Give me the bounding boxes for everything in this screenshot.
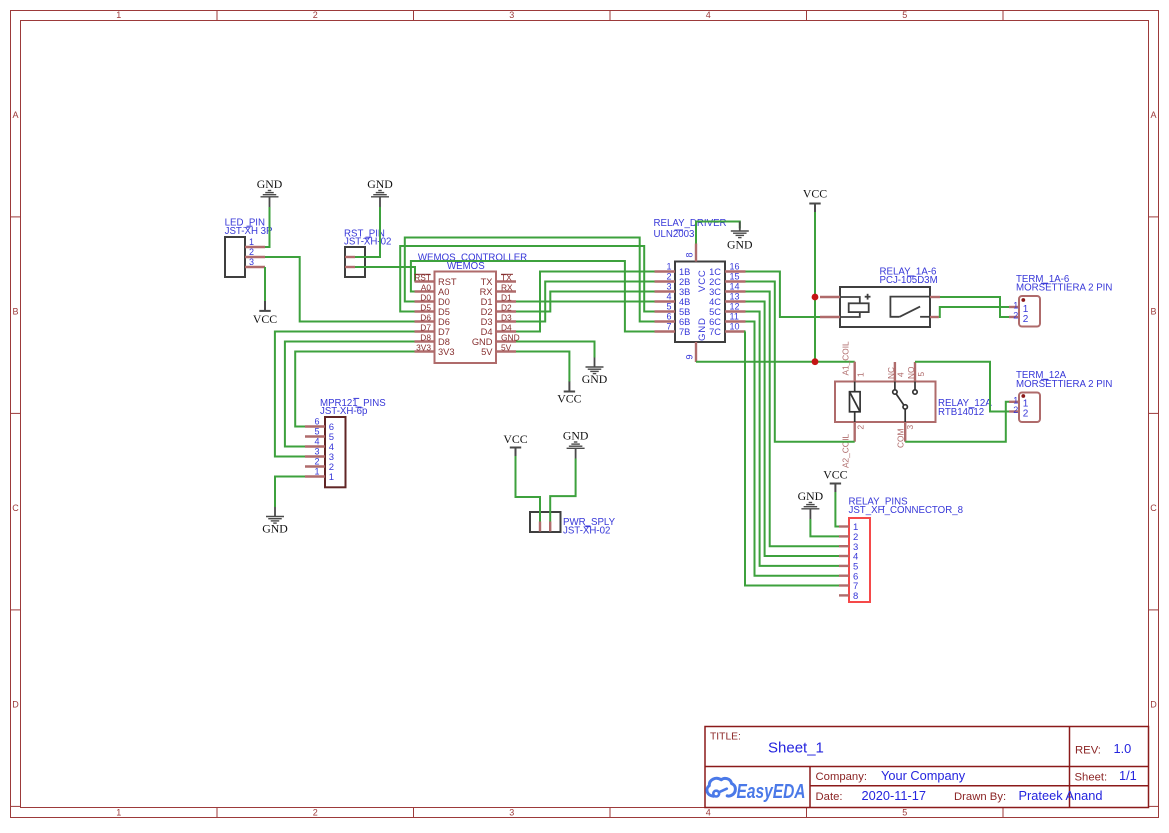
svg-text:A0: A0 xyxy=(438,287,449,297)
svg-text:VCC: VCC xyxy=(253,312,277,326)
svg-text:7C: 7C xyxy=(709,327,721,337)
svg-text:3V3: 3V3 xyxy=(416,342,431,352)
svg-text:3C: 3C xyxy=(709,287,721,297)
svg-text:VCC: VCC xyxy=(803,187,827,201)
svg-text:D1: D1 xyxy=(481,297,493,307)
svg-text:1/1: 1/1 xyxy=(1119,768,1137,783)
svg-text:GND: GND xyxy=(262,521,288,535)
svg-text:B: B xyxy=(1150,307,1156,317)
svg-text:4B: 4B xyxy=(679,297,690,307)
svg-text:NC: NC xyxy=(886,367,896,379)
svg-text:5: 5 xyxy=(902,10,907,20)
svg-text:3: 3 xyxy=(509,10,514,20)
svg-text:5: 5 xyxy=(902,808,907,818)
svg-text:RELAY_DRIVER: RELAY_DRIVER xyxy=(654,218,727,229)
ground GND (ULN pin 8) xyxy=(727,222,753,252)
svg-text:6: 6 xyxy=(666,311,671,321)
svg-text:RST: RST xyxy=(438,277,457,287)
svg-text:2: 2 xyxy=(856,425,866,430)
wire net D5 : WEMOS D5 to ULN 5B xyxy=(400,246,654,312)
svg-text:GND: GND xyxy=(563,429,589,443)
wire net 3V3 : WEMOS 3V3 to MPR121 pin6 xyxy=(295,352,414,427)
svg-text:5: 5 xyxy=(916,372,926,377)
svg-text:D: D xyxy=(12,700,19,710)
wire net D6 : LED_PIN pin2 to WEMOS D6 xyxy=(265,257,415,322)
svg-text:D6: D6 xyxy=(420,312,431,322)
wire ULN 7C to RELAY_PINS 7 xyxy=(745,332,839,586)
wire MPR121 pin1 to ground xyxy=(275,477,305,508)
svg-text:7B: 7B xyxy=(679,327,690,337)
svg-text:3: 3 xyxy=(249,257,254,267)
svg-text:1: 1 xyxy=(249,237,254,247)
wire net A0 : WEMOS A0 to ULN 7B xyxy=(411,261,655,332)
svg-text:4C: 4C xyxy=(709,297,721,307)
svg-text:2C: 2C xyxy=(709,277,721,287)
wire RST_PIN pin1 to GND xyxy=(355,207,380,257)
svg-text:2: 2 xyxy=(1023,408,1029,419)
ground GND (WEMOS) xyxy=(582,358,608,386)
wire VCC rail down to coil junctions xyxy=(814,212,816,362)
svg-text:1: 1 xyxy=(329,472,334,483)
svg-text:A2_COIL: A2_COIL xyxy=(840,433,850,468)
svg-text:MORSETTIERA 2 PIN: MORSETTIERA 2 PIN xyxy=(1016,282,1112,293)
wire relay1 COM to TERM_1A-6 pin1 xyxy=(939,307,1009,317)
wire ULN 1C to relay1 coil- xyxy=(746,272,821,318)
svg-text:JST-XH-02: JST-XH-02 xyxy=(563,526,610,537)
svg-text:4: 4 xyxy=(314,437,319,447)
svg-text:1.0: 1.0 xyxy=(1114,741,1132,756)
svg-text:A: A xyxy=(12,110,18,120)
svg-text:JST-XH 3P: JST-XH 3P xyxy=(225,226,273,237)
wire relay2 COM to TERM_12A pin1 xyxy=(905,402,1009,442)
svg-text:12: 12 xyxy=(730,301,740,311)
svg-text:1C: 1C xyxy=(709,267,721,277)
wire ULN pin8 to ground xyxy=(696,222,740,244)
svg-text:GND: GND xyxy=(727,237,753,251)
wire VCC to RELAY_PINS pin1 xyxy=(835,492,839,527)
svg-text:VCC: VCC xyxy=(823,467,847,481)
svg-text:GND: GND xyxy=(472,337,493,347)
svg-text:JST-XH-02: JST-XH-02 xyxy=(344,237,391,248)
wire ULN 5C to RELAY_PINS 5 xyxy=(746,312,840,566)
power flag VCC (RELAY_PINS pin 1) xyxy=(823,467,847,492)
svg-text:D5: D5 xyxy=(420,302,431,312)
svg-text:GND: GND xyxy=(367,177,393,191)
svg-text:1: 1 xyxy=(314,467,319,477)
svg-text:TX: TX xyxy=(481,277,493,287)
svg-text:8: 8 xyxy=(685,252,695,257)
svg-text:4: 4 xyxy=(666,291,671,301)
svg-text:RX: RX xyxy=(480,287,493,297)
svg-text:1B: 1B xyxy=(679,267,690,277)
svg-text:5V: 5V xyxy=(481,347,493,357)
svg-text:2: 2 xyxy=(314,457,319,467)
svg-text:3V3: 3V3 xyxy=(438,347,455,357)
svg-text:4: 4 xyxy=(896,372,906,377)
svg-text:GND: GND xyxy=(257,177,283,191)
svg-text:3: 3 xyxy=(314,447,319,457)
svg-text:3: 3 xyxy=(905,425,915,430)
svg-text:D1: D1 xyxy=(501,292,512,302)
svg-text:COM: COM xyxy=(896,429,906,448)
svg-text:VCC: VCC xyxy=(503,432,527,446)
wire WEMOS GND pin to ground xyxy=(516,342,595,358)
svg-text:GND: GND xyxy=(582,372,608,386)
svg-text:D4: D4 xyxy=(481,327,493,337)
wire net D7 : WEMOS D7 to MPR121 pin3 xyxy=(275,332,415,457)
wire relay2 NO to TERM_12A pin2 xyxy=(915,362,1009,412)
svg-text:D3: D3 xyxy=(501,312,512,322)
svg-text:5B: 5B xyxy=(679,307,690,317)
svg-text:VCC: VCC xyxy=(697,269,708,292)
svg-text:ULN2003: ULN2003 xyxy=(654,229,695,240)
svg-text:D6: D6 xyxy=(438,317,450,327)
connector TERM_1A-6 (MORSETTIERA 2 PIN) xyxy=(1009,274,1112,327)
ground GND (PWR_SPLY pin 2) xyxy=(563,429,589,459)
ground GND (RST_PIN pin 1) xyxy=(367,177,393,207)
svg-text:5C: 5C xyxy=(709,307,721,317)
svg-text:5: 5 xyxy=(666,301,671,311)
svg-text:2: 2 xyxy=(1023,314,1029,325)
svg-text:1: 1 xyxy=(1013,301,1018,311)
wire net D0 : WEMOS D0 to ULN 6B xyxy=(405,238,655,322)
svg-text:3: 3 xyxy=(666,281,671,291)
svg-text:D5: D5 xyxy=(438,307,450,317)
power flag VCC (PWR_SPLY pin 1) xyxy=(503,432,527,456)
svg-text:1: 1 xyxy=(666,261,671,271)
svg-text:D4: D4 xyxy=(501,322,512,332)
connector MPR121_PINS (JST-XH-6p) xyxy=(305,398,386,488)
svg-text:5: 5 xyxy=(314,427,319,437)
svg-text:2020-11-17: 2020-11-17 xyxy=(862,788,927,803)
wire VCC to PWR_SPLY pin1 xyxy=(516,456,541,522)
svg-text:D7: D7 xyxy=(420,322,431,332)
power flag VCC (LED_PIN pin 3) xyxy=(253,301,277,326)
wire net D8 : WEMOS D8 to MPR121 pin4 xyxy=(285,342,415,447)
svg-text:A0: A0 xyxy=(421,282,432,292)
junction node VCC / A1_COIL rail xyxy=(812,358,819,365)
wire net D2 : WEMOS D2 to ULN 3B xyxy=(516,292,655,312)
svg-text:EasyEDA: EasyEDA xyxy=(737,781,806,803)
svg-text:D2: D2 xyxy=(481,307,493,317)
connector RELAY_PINS (JST_XH_CONNECTOR_8) xyxy=(839,496,963,602)
svg-text:2: 2 xyxy=(666,271,671,281)
svg-text:D8: D8 xyxy=(438,337,450,347)
svg-text:MORSETTIERA 2 PIN: MORSETTIERA 2 PIN xyxy=(1016,379,1112,390)
wire net D3 : WEMOS D3 to ULN 2B xyxy=(516,282,655,322)
svg-text:4: 4 xyxy=(706,10,711,20)
wire LED_PIN pin3 to VCC xyxy=(264,267,266,301)
svg-text:Company:: Company: xyxy=(816,771,868,783)
svg-text:D2: D2 xyxy=(501,302,512,312)
svg-text:D0: D0 xyxy=(438,297,450,307)
svg-text:C: C xyxy=(12,503,19,513)
ground GND (LED_PIN pin 1) xyxy=(257,177,283,207)
svg-text:GND: GND xyxy=(798,489,824,503)
junction node VCC / relay1 coil+ xyxy=(812,294,819,301)
svg-text:1: 1 xyxy=(116,10,121,20)
svg-text:2: 2 xyxy=(249,247,254,257)
wire net D1 : WEMOS D1 to ULN 4B xyxy=(516,301,655,303)
svg-text:5V: 5V xyxy=(501,342,512,352)
ground GND (RELAY_PINS pin 2) xyxy=(798,489,824,519)
svg-text:4: 4 xyxy=(706,808,711,818)
wire ULN pin9 COM to A1_COIL xyxy=(696,361,855,363)
wire LED_PIN pin1 to GND xyxy=(265,207,270,247)
wire ULN 2C to A2_COIL xyxy=(746,282,855,442)
svg-text:6: 6 xyxy=(314,417,319,427)
svg-text:Prateek Anand: Prateek Anand xyxy=(1019,788,1103,803)
relay RELAY_1A-6 (PCJ-105D3M) xyxy=(820,267,940,327)
svg-text:D7: D7 xyxy=(438,327,450,337)
svg-text:VCC: VCC xyxy=(557,391,581,405)
svg-text:8: 8 xyxy=(853,591,858,602)
svg-text:2: 2 xyxy=(313,10,318,20)
svg-text:PCJ-105D3M: PCJ-105D3M xyxy=(880,275,938,286)
power flag VCC (WEMOS 5V) xyxy=(557,382,581,406)
svg-text:Drawn By:: Drawn By: xyxy=(954,791,1006,803)
svg-text:3: 3 xyxy=(509,808,514,818)
wire WEMOS 5V pin to VCC xyxy=(516,352,569,383)
svg-text:Sheet_1: Sheet_1 xyxy=(768,740,824,757)
svg-text:B: B xyxy=(12,307,18,317)
wire ULN 6C to RELAY_PINS 6 xyxy=(746,322,840,576)
wire net D4 : WEMOS D4 to ULN 1B xyxy=(516,272,655,332)
svg-text:JST-XH-6p: JST-XH-6p xyxy=(320,406,367,417)
wire GND to PWR_SPLY pin2 xyxy=(550,459,575,522)
svg-text:2: 2 xyxy=(1013,405,1018,415)
svg-text:11: 11 xyxy=(730,311,739,321)
svg-text:10: 10 xyxy=(730,321,740,331)
svg-text:Date:: Date: xyxy=(816,791,843,803)
svg-text:Sheet:: Sheet: xyxy=(1075,772,1108,784)
connector RST_PIN (JST-XH-02) xyxy=(344,228,391,277)
svg-text:RTB14012: RTB14012 xyxy=(938,407,984,418)
svg-text:D8: D8 xyxy=(420,332,431,342)
svg-text:D3: D3 xyxy=(481,317,493,327)
svg-text:16: 16 xyxy=(730,261,740,271)
power flag VCC (relay rail) xyxy=(803,187,827,213)
connector TERM_12A (MORSETTIERA 2 PIN) xyxy=(1009,370,1112,422)
svg-text:6B: 6B xyxy=(679,317,690,327)
svg-text:3B: 3B xyxy=(679,287,690,297)
ground GND (MPR121 pin 1) xyxy=(262,507,288,535)
svg-text:JST_XH_CONNECTOR_8: JST_XH_CONNECTOR_8 xyxy=(849,505,964,516)
svg-text:1: 1 xyxy=(116,808,121,818)
svg-text:D: D xyxy=(1150,700,1157,710)
svg-text:A: A xyxy=(1150,110,1156,120)
svg-text:7: 7 xyxy=(666,321,671,331)
connector LED_PIN (JST-XH 3P) xyxy=(225,218,273,278)
svg-text:9: 9 xyxy=(685,354,695,359)
IC RELAY_DRIVER (ULN2003) xyxy=(654,218,746,362)
wire ULN 4C to RELAY_PINS 4 xyxy=(746,302,840,557)
svg-text:REV:: REV: xyxy=(1075,745,1101,757)
wire relay1 NO to TERM_1A-6 pin2 xyxy=(940,297,1009,317)
svg-text:14: 14 xyxy=(730,281,740,291)
svg-text:1: 1 xyxy=(1013,395,1018,405)
svg-text:15: 15 xyxy=(730,271,740,281)
svg-text:2: 2 xyxy=(1013,311,1018,321)
svg-text:2: 2 xyxy=(313,808,318,818)
svg-text:6C: 6C xyxy=(709,317,721,327)
IC WEMOS_CONTROLLER (WEMOS) xyxy=(414,252,527,363)
connector PWR_SPLY (JST-XH-02) xyxy=(530,512,616,537)
svg-text:13: 13 xyxy=(730,291,740,301)
svg-text:C: C xyxy=(1150,503,1157,513)
svg-text:GND: GND xyxy=(697,317,708,341)
wire net RST : RST_PIN pin2 to WEMOS RST xyxy=(355,267,415,282)
svg-text:NO: NO xyxy=(906,366,916,379)
svg-text:Your Company: Your Company xyxy=(881,768,966,783)
svg-text:TITLE:: TITLE: xyxy=(710,732,741,743)
svg-text:D0: D0 xyxy=(420,292,431,302)
relay RELAY_12A (RTB14012) xyxy=(835,341,992,468)
wire ULN 3C to RELAY_PINS 3 xyxy=(746,292,840,547)
svg-text:1: 1 xyxy=(856,372,866,377)
svg-text:RX: RX xyxy=(501,282,513,292)
wire GND to RELAY_PINS pin2 xyxy=(810,519,839,536)
svg-text:2B: 2B xyxy=(679,277,690,287)
svg-text:A1_COIL: A1_COIL xyxy=(840,341,850,376)
